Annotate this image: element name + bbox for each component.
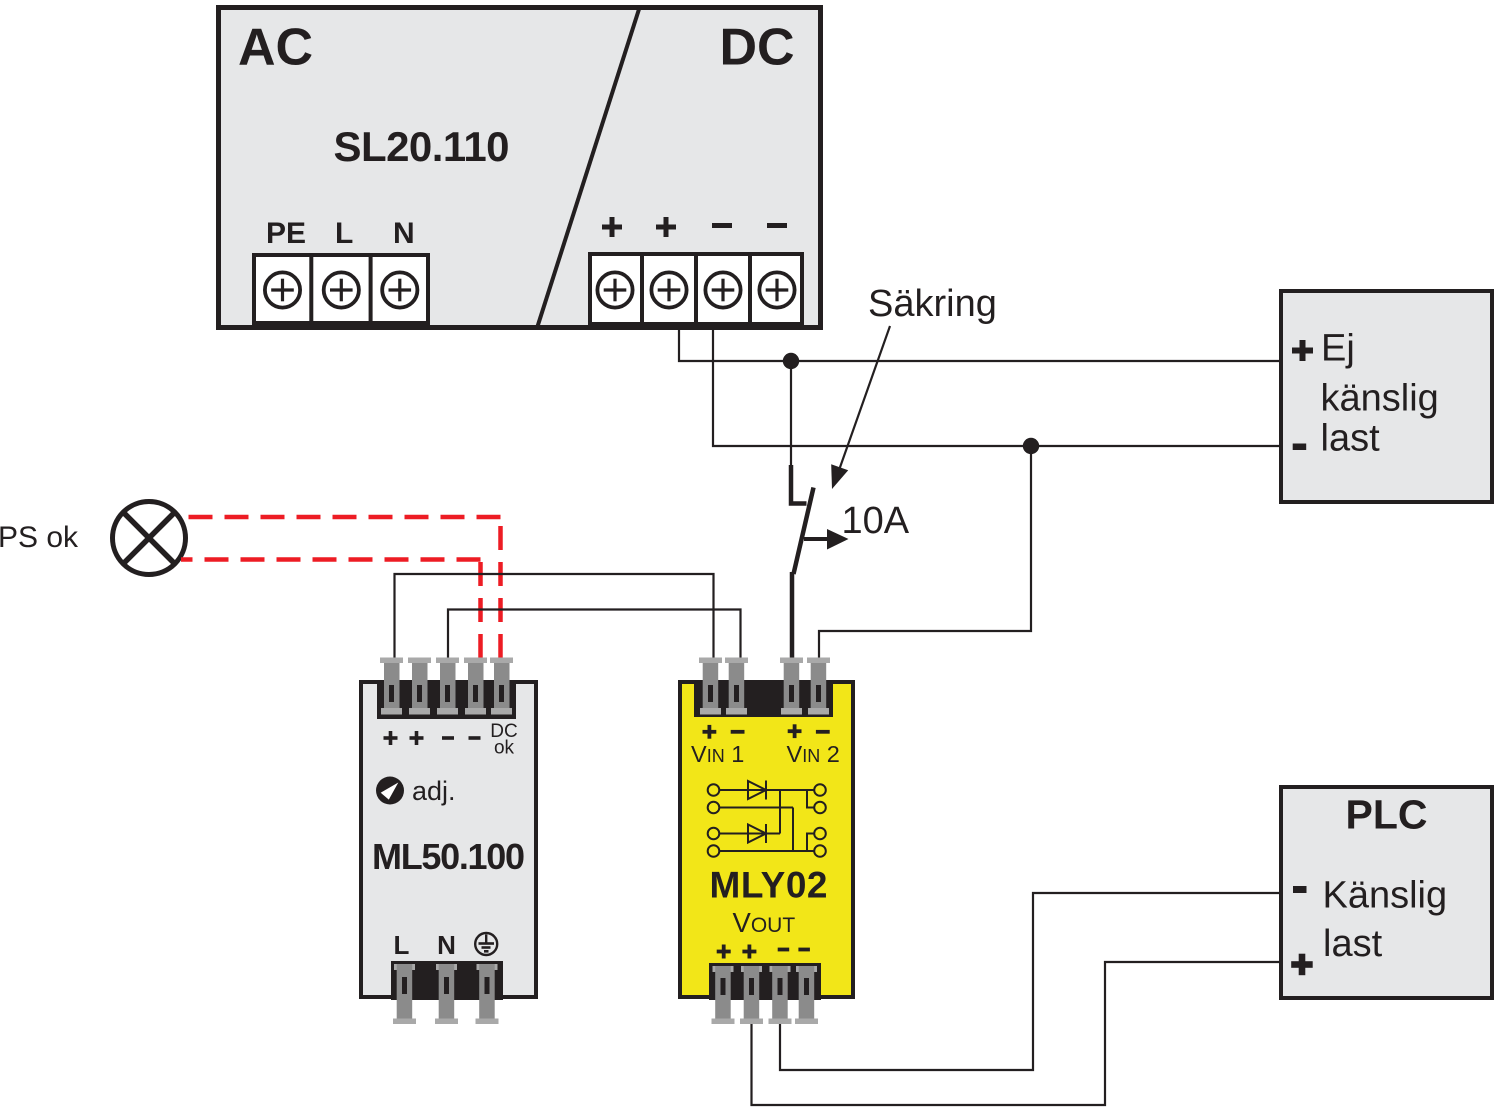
power supply ML50.100 body [361, 682, 536, 997]
screw terminal PE [265, 272, 300, 307]
svg-text:N: N [437, 930, 456, 960]
svg-text:L: L [335, 217, 353, 250]
MLY02 terminal pin VOUT -1 [769, 966, 792, 1024]
MLY02 VIN1 plus mark [703, 725, 717, 739]
lamp PS ok [113, 502, 186, 575]
screw terminal DC -2 [759, 272, 794, 307]
MLY02 VIN1 minus mark [731, 730, 745, 734]
AC terminal block (PE L N) [254, 253, 428, 325]
breaker trip arrow [804, 529, 849, 550]
MLY02 bottom terminal block [709, 963, 821, 1000]
diode network terminals right [814, 784, 826, 857]
diode D2 [748, 824, 766, 843]
svg-text:känslig: känslig [1321, 378, 1439, 420]
MLY02 terminal pin VIN2 + [780, 658, 803, 715]
svg-text:AC: AC [238, 19, 313, 77]
DC terminal block (+ + - -) [590, 252, 802, 326]
ML50 terminal pin +1 [380, 658, 403, 715]
wire MLY02 VOUT - to PLC - [780, 893, 1281, 1070]
MLY02 terminal pin VIN2 - [807, 658, 830, 715]
ML50 terminal pin +2 [408, 658, 431, 715]
label DC ok [490, 721, 517, 759]
svg-text:ML50.100: ML50.100 [372, 836, 525, 877]
redundancy module MLY02 body [680, 682, 853, 997]
wire DC- to Ej kanslig last - [713, 330, 1281, 446]
ML50 terminal pin L [393, 964, 416, 1024]
diode network wires [719, 790, 814, 851]
minus mark Ej last [1293, 444, 1307, 451]
wire junction to MLY02 VIN2 - [819, 446, 1031, 658]
MLY02 VIN2 minus mark [816, 730, 830, 734]
red signal wire lamp to DC ok (upper) [181, 515, 501, 658]
svg-text:Känslig: Känslig [1323, 875, 1448, 917]
AC/DC divider diagonal line [537, 6, 640, 328]
svg-text:adj.: adj. [412, 776, 456, 806]
MLY02 terminal pin VIN1 + [699, 658, 722, 715]
protective earth symbol [475, 933, 497, 955]
svg-text:PS ok: PS ok [0, 521, 79, 554]
ML50 terminal pin -2 [464, 658, 487, 715]
MLY02 VIN2 plus mark [788, 724, 802, 738]
label Kanslig last [1323, 875, 1448, 966]
diode D1 [748, 781, 766, 800]
svg-text:N: N [393, 217, 415, 250]
wire ML50 + to MLY02 VIN1 + [395, 574, 714, 658]
screw terminal DC +2 [651, 272, 686, 307]
MLY02 terminal pin VOUT -2 [795, 966, 818, 1024]
load box PLC [1281, 787, 1492, 998]
svg-text:MLY02: MLY02 [710, 865, 828, 906]
MLY02 VOUT minus mark 2 [798, 948, 810, 952]
svg-text:last: last [1321, 418, 1381, 460]
DC output plus mark 2 [656, 217, 676, 237]
MLY02 VOUT plus mark 1 [717, 945, 731, 959]
ML50 minus mark 2 [469, 736, 481, 740]
DC output minus mark 2 [767, 223, 787, 228]
wire ML50 - to MLY02 VIN1 - [448, 610, 741, 659]
power supply SL20.110 body [219, 8, 821, 328]
adj potentiometer icon [376, 777, 404, 805]
svg-text:Säkring: Säkring [868, 283, 997, 325]
screw terminal L [324, 272, 359, 307]
MLY02 top terminal block [694, 680, 833, 717]
leader arrow from Sakring to fuse [831, 326, 890, 489]
ML50 terminal pin PE [476, 964, 499, 1024]
svg-text:L: L [394, 930, 410, 960]
svg-text:ok: ok [494, 738, 515, 759]
node junction on + wire [783, 353, 799, 369]
ML50 top terminal block [377, 680, 516, 719]
svg-text:PLC: PLC [1346, 792, 1428, 838]
wire DC+ to Ej kanslig last + [679, 330, 1281, 361]
MLY02 terminal pin VOUT +2 [740, 966, 763, 1024]
node junction on - wire [1023, 438, 1039, 454]
DC output minus mark 1 [712, 223, 732, 228]
minus mark PLC [1293, 886, 1307, 893]
MLY02 terminal pin VIN1 - [725, 658, 748, 715]
ML50 plus mark 1 [384, 731, 398, 745]
ML50 terminal pin DC ok [490, 658, 513, 715]
ML50 bottom terminal block [391, 961, 503, 1000]
svg-text:last: last [1323, 923, 1383, 965]
MLY02 VOUT minus mark 1 [778, 948, 790, 952]
plus mark Ej last [1292, 340, 1313, 361]
load box Ej kanslig last [1281, 291, 1492, 502]
svg-text:Ej: Ej [1321, 328, 1355, 370]
DC output plus mark 1 [602, 217, 622, 237]
screw terminal DC +1 [597, 272, 632, 307]
svg-text:DC: DC [720, 19, 795, 77]
screw terminal N [382, 272, 417, 307]
svg-text:PE: PE [266, 217, 306, 250]
label Ej kanslig last [1321, 328, 1439, 460]
ML50 plus mark 2 [410, 731, 424, 745]
ML50 terminal pin -1 [436, 658, 459, 715]
diode network terminals left [708, 784, 720, 857]
plus mark PLC [1291, 954, 1313, 976]
MLY02 terminal pin VOUT +1 [712, 966, 735, 1024]
ML50 terminal pin N [435, 964, 458, 1024]
screw terminal DC -1 [705, 272, 740, 307]
fuse / circuit breaker F1 10A [791, 366, 814, 659]
ML50 minus mark 1 [442, 736, 454, 740]
svg-text:SL20.110: SL20.110 [334, 123, 510, 170]
red signal wire lamp to DC ok (lower) [181, 557, 481, 658]
svg-text:10A: 10A [842, 500, 910, 542]
wire MLY02 VOUT + to PLC + [752, 962, 1282, 1105]
MLY02 VOUT plus mark 2 [742, 945, 756, 959]
